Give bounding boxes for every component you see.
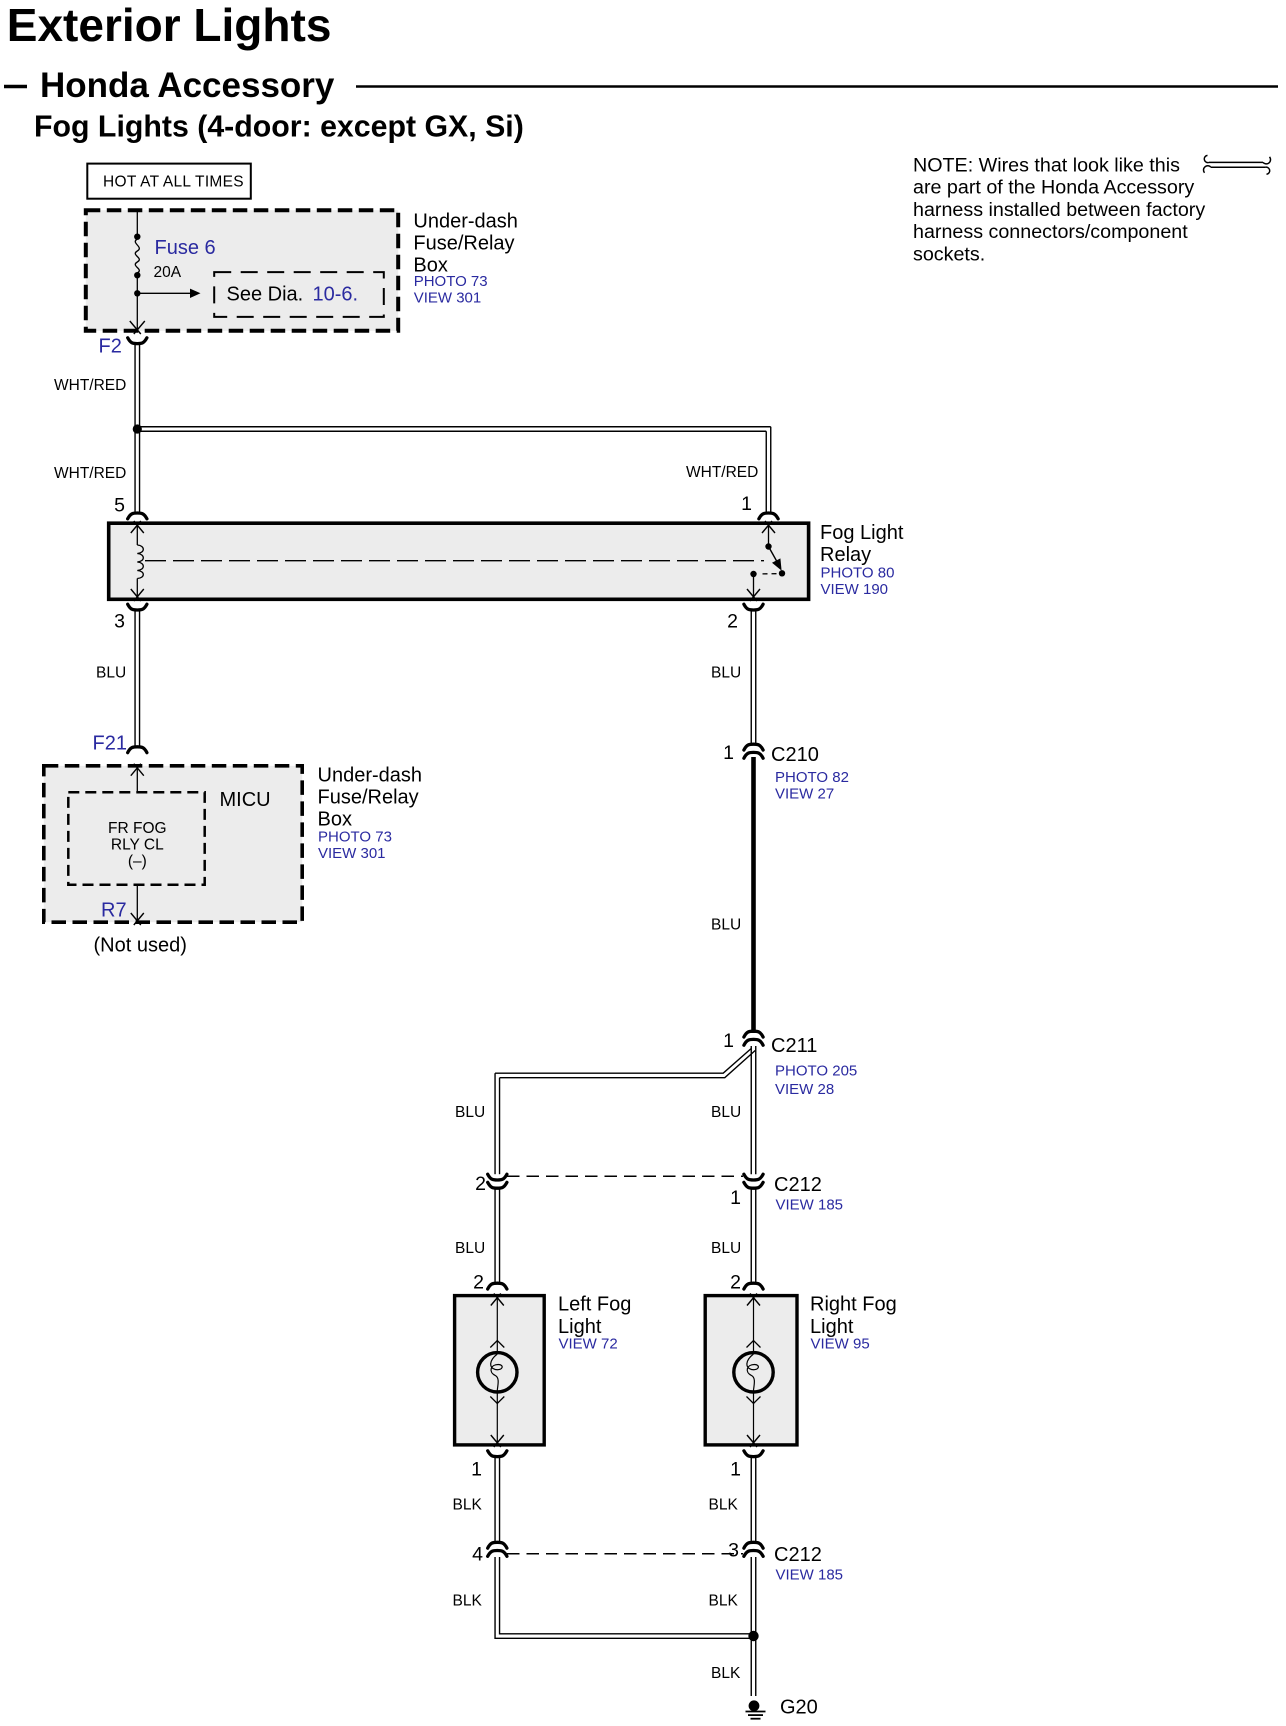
component label: Left Fog Light xyxy=(558,1294,631,1338)
svg-text:WHT/RED: WHT/RED xyxy=(686,464,758,481)
svg-text:Honda Accessory: Honda Accessory xyxy=(40,66,335,105)
svg-text:Fuse/Relay: Fuse/Relay xyxy=(318,787,419,809)
relay switch contact node xyxy=(779,570,785,576)
see-dia reference box (dashed) xyxy=(214,272,384,317)
svg-text:Fuse 6: Fuse 6 xyxy=(155,237,216,259)
svg-text:PHOTO 73: PHOTO 73 xyxy=(318,829,392,846)
svg-text:G20: G20 xyxy=(780,1697,818,1719)
under-dash fuse/relay box (MICU, dashed) xyxy=(44,766,302,922)
ref label PHOTO 80 / VIEW 190 xyxy=(821,564,895,598)
wire BLU: C212 to right fog light xyxy=(750,1190,752,1284)
connector pin 1 xyxy=(759,513,778,519)
connector pin 3 xyxy=(128,604,147,610)
relay output node xyxy=(750,571,756,577)
svg-text:BLK: BLK xyxy=(709,1497,739,1514)
svg-text:WHT/RED: WHT/RED xyxy=(54,377,126,394)
arrow: F21 entry xyxy=(131,764,141,776)
section rule line xyxy=(356,85,1278,88)
svg-text:(–): (–) xyxy=(128,853,147,870)
fog light relay box xyxy=(109,523,809,599)
connector pin 5 xyxy=(128,513,147,519)
ground junction node xyxy=(748,1631,758,1641)
component label: Right Fog Light xyxy=(810,1294,897,1338)
wire: fuse feed inside box xyxy=(136,212,138,237)
svg-text:VIEW 190: VIEW 190 xyxy=(821,581,889,598)
svg-text:Under-dash: Under-dash xyxy=(413,210,518,232)
svg-text:PHOTO 80: PHOTO 80 xyxy=(821,564,895,581)
fuse F6 element (squiggle) xyxy=(135,239,139,273)
relay switch common wire xyxy=(768,524,770,547)
relay output wire xyxy=(753,574,755,598)
svg-text:2: 2 xyxy=(473,1272,484,1294)
svg-text:BLU: BLU xyxy=(711,917,741,934)
svg-text:1: 1 xyxy=(730,1187,741,1209)
relay internal dashed actuation line xyxy=(145,560,764,562)
under-dash fuse/relay box (top, dashed) xyxy=(86,210,398,331)
arrow to see-dia box xyxy=(137,292,191,294)
svg-text:Light: Light xyxy=(558,1316,602,1338)
svg-text:Exterior Lights: Exterior Lights xyxy=(7,0,332,51)
svg-text:BLU: BLU xyxy=(711,1240,741,1257)
svg-text:Relay: Relay xyxy=(820,544,871,566)
svg-text:VIEW 185: VIEW 185 xyxy=(776,1197,844,1214)
dashed connector tie C212 (row 2) xyxy=(507,1553,743,1555)
svg-text:VIEW 301: VIEW 301 xyxy=(318,845,386,862)
svg-text:BLU: BLU xyxy=(711,1104,741,1121)
svg-text:2: 2 xyxy=(475,1173,486,1195)
connector C210 xyxy=(744,744,763,750)
svg-text:harness installed between fact: harness installed between factory xyxy=(913,199,1205,221)
svg-text:Box: Box xyxy=(318,809,352,831)
svg-text:1: 1 xyxy=(741,493,752,515)
MICU block (inner dashed box) xyxy=(68,792,204,884)
wire BLK: C212 pin 4 down and over to ground junction xyxy=(495,1557,753,1638)
svg-text:20A: 20A xyxy=(154,264,182,281)
relay switch common node xyxy=(765,543,771,549)
svg-text:VIEW 28: VIEW 28 xyxy=(775,1081,834,1098)
connector C212 pin 3 (right) xyxy=(744,1542,763,1548)
wire: F21 to MICU block xyxy=(136,766,138,791)
connector C212 pin 4 (left) xyxy=(488,1542,507,1548)
svg-text:harness connectors/component: harness connectors/component xyxy=(913,221,1188,243)
relay switch blade xyxy=(769,547,780,567)
wire BLU (accessory harness, heavy): C210 to C211 xyxy=(751,757,756,1033)
connector right fog pin 1 xyxy=(744,1451,763,1457)
relay coil wire bottom xyxy=(136,579,138,598)
wire WHT/RED: junction to relay pin 5 xyxy=(134,431,136,513)
ref label PHOTO 205 / VIEW 28 xyxy=(775,1062,857,1098)
svg-text:1: 1 xyxy=(723,1030,734,1052)
component label: Under-dash Fuse/Relay Box xyxy=(413,210,518,276)
hot-at-all-times label box xyxy=(87,164,251,199)
left fog light (with bulb) xyxy=(455,1296,545,1445)
svg-text:Fuse/Relay: Fuse/Relay xyxy=(413,232,514,254)
svg-text:MICU: MICU xyxy=(220,789,271,811)
junction node xyxy=(133,424,142,433)
label FR FOG RLY CL (-) xyxy=(108,820,167,870)
connector cavity F2 xyxy=(128,338,147,344)
svg-text:2: 2 xyxy=(727,611,738,633)
svg-text:BLU: BLU xyxy=(96,665,126,682)
note text block xyxy=(913,155,1205,266)
svg-text:BLU: BLU xyxy=(455,1240,485,1257)
svg-text:PHOTO 73: PHOTO 73 xyxy=(414,273,488,290)
svg-text:VIEW 27: VIEW 27 xyxy=(775,786,834,803)
svg-text:3: 3 xyxy=(728,1540,739,1562)
svg-text:C210: C210 xyxy=(771,744,819,766)
wire WHT/RED: F2 down to junction xyxy=(134,345,136,427)
svg-text:See Dia.: See Dia. xyxy=(227,284,304,306)
connector C211 xyxy=(744,1031,763,1037)
svg-text:Fog Light: Fog Light xyxy=(820,522,904,544)
svg-text:NOTE: Wires that look like thi: NOTE: Wires that look like this xyxy=(913,155,1180,177)
svg-text:Fog Lights (4-door: except GX,: Fog Lights (4-door: except GX, Si) xyxy=(34,111,524,144)
arrow: R7 exit xyxy=(131,913,141,925)
connector left fog pin 1 xyxy=(488,1451,507,1457)
svg-text:BLK: BLK xyxy=(711,1665,741,1682)
ref label PHOTO 73 / VIEW 301 (MICU) xyxy=(318,829,392,863)
wire BLU: C211 branch to left fog column xyxy=(495,1049,751,1074)
svg-text:Right Fog: Right Fog xyxy=(810,1294,897,1316)
relay coil xyxy=(137,545,143,579)
svg-text:VIEW 185: VIEW 185 xyxy=(776,1567,844,1584)
wire BLU: pin 2 to C210 xyxy=(750,611,752,744)
svg-text:C211: C211 xyxy=(771,1035,817,1057)
section dash xyxy=(4,85,27,89)
node: fuse bottom xyxy=(134,272,140,278)
svg-text:VIEW 301: VIEW 301 xyxy=(414,290,482,307)
svg-text:FR FOG: FR FOG xyxy=(108,820,167,837)
svg-text:BLU: BLU xyxy=(455,1104,485,1121)
svg-text:1: 1 xyxy=(730,1459,741,1481)
wire BLK: C212 pin 3 down to ground junction xyxy=(750,1557,752,1632)
component label: Fog Light Relay xyxy=(820,522,904,566)
svg-text:BLK: BLK xyxy=(709,1593,739,1610)
relay coil arrow (pin 5 entry) xyxy=(131,521,141,533)
svg-text:BLU: BLU xyxy=(711,665,741,682)
svg-text:RLY CL: RLY CL xyxy=(111,837,164,854)
svg-text:PHOTO 82: PHOTO 82 xyxy=(775,769,849,786)
wire BLU: pin 3 to F21 xyxy=(134,611,136,747)
svg-text:5: 5 xyxy=(114,495,125,517)
relay coil wire top xyxy=(136,524,138,546)
svg-text:1: 1 xyxy=(471,1459,482,1481)
svg-text:VIEW 95: VIEW 95 xyxy=(811,1336,870,1353)
relay switch contact dashed link xyxy=(759,573,777,575)
svg-text:Under-dash: Under-dash xyxy=(318,765,423,787)
wire WHT/RED: junction branch to relay pin 1 xyxy=(137,426,770,428)
node: fuse top xyxy=(134,234,140,240)
connector pin 2 xyxy=(744,604,763,610)
relay coil arrow (pin 3 exit) xyxy=(131,589,141,601)
relay switch arrow (pin 2 exit) xyxy=(747,589,757,601)
arrow: F2 exit at box bottom xyxy=(130,321,141,334)
svg-text:sockets.: sockets. xyxy=(913,243,985,265)
connector left fog pin 2 xyxy=(488,1283,507,1289)
connector C212 pin 1 (right) xyxy=(744,1174,763,1180)
component label: Under-dash Fuse/Relay Box (MICU) xyxy=(318,765,423,831)
svg-text:2: 2 xyxy=(730,1272,741,1294)
svg-text:PHOTO 205: PHOTO 205 xyxy=(775,1062,857,1079)
svg-text:C212: C212 xyxy=(774,1544,822,1566)
ref label PHOTO 82 / VIEW 27 xyxy=(775,769,849,803)
right fog light (with bulb) xyxy=(705,1296,797,1445)
wire: fuse to branch xyxy=(136,275,138,330)
note accessory-wire sample symbol xyxy=(1203,155,1270,174)
wire: MICU block to R7 (not used) xyxy=(136,885,138,921)
svg-text:Light: Light xyxy=(810,1316,854,1338)
ground G20 xyxy=(746,1700,766,1718)
wire BLU: C212 to left fog light xyxy=(494,1190,496,1284)
node: see-dia branch xyxy=(134,290,140,296)
dashed connector tie C212 xyxy=(507,1175,743,1177)
relay switch arrow (pin 1 entry) xyxy=(762,521,772,533)
svg-text:BLK: BLK xyxy=(453,1593,483,1610)
svg-text:VIEW 72: VIEW 72 xyxy=(559,1336,618,1353)
svg-text:BLK: BLK xyxy=(453,1497,483,1514)
svg-text:1: 1 xyxy=(723,742,734,764)
svg-text:R7: R7 xyxy=(101,900,127,922)
wire BLK: right fog to C212 pin 3 xyxy=(750,1458,752,1543)
svg-text:3: 3 xyxy=(114,611,125,633)
svg-text:F2: F2 xyxy=(99,336,122,358)
svg-text:4: 4 xyxy=(472,1544,483,1566)
wire BLK: left fog to C212 pin 4 xyxy=(494,1458,496,1543)
ref label PHOTO 73 / VIEW 301 xyxy=(414,273,488,307)
connector right fog pin 2 xyxy=(744,1283,763,1289)
svg-text:F21: F21 xyxy=(93,733,127,755)
svg-text:(Not used): (Not used) xyxy=(94,935,187,957)
svg-text:HOT AT ALL TIMES: HOT AT ALL TIMES xyxy=(103,174,244,191)
svg-text:WHT/RED: WHT/RED xyxy=(54,465,126,482)
wire BLK: junction to G20 xyxy=(750,1640,752,1696)
wire BLU: C211 straight down to C212 xyxy=(750,1046,752,1174)
svg-text:are part of the Honda Accessor: are part of the Honda Accessory xyxy=(913,177,1194,199)
svg-text:C212: C212 xyxy=(774,1174,822,1196)
svg-text:10-6.: 10-6. xyxy=(313,284,359,306)
connector C212 pin 2 (left) xyxy=(488,1174,507,1180)
svg-text:Left Fog: Left Fog xyxy=(558,1294,631,1316)
